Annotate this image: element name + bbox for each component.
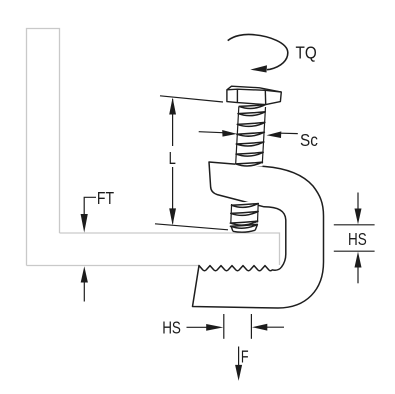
svg-text:Sc: Sc — [300, 130, 318, 150]
svg-text:F: F — [241, 348, 249, 368]
svg-text:HS: HS — [348, 230, 367, 249]
svg-text:L: L — [169, 149, 176, 169]
svg-text:FT: FT — [97, 188, 114, 208]
svg-text:HS: HS — [162, 319, 181, 338]
svg-text:TQ: TQ — [296, 42, 317, 62]
